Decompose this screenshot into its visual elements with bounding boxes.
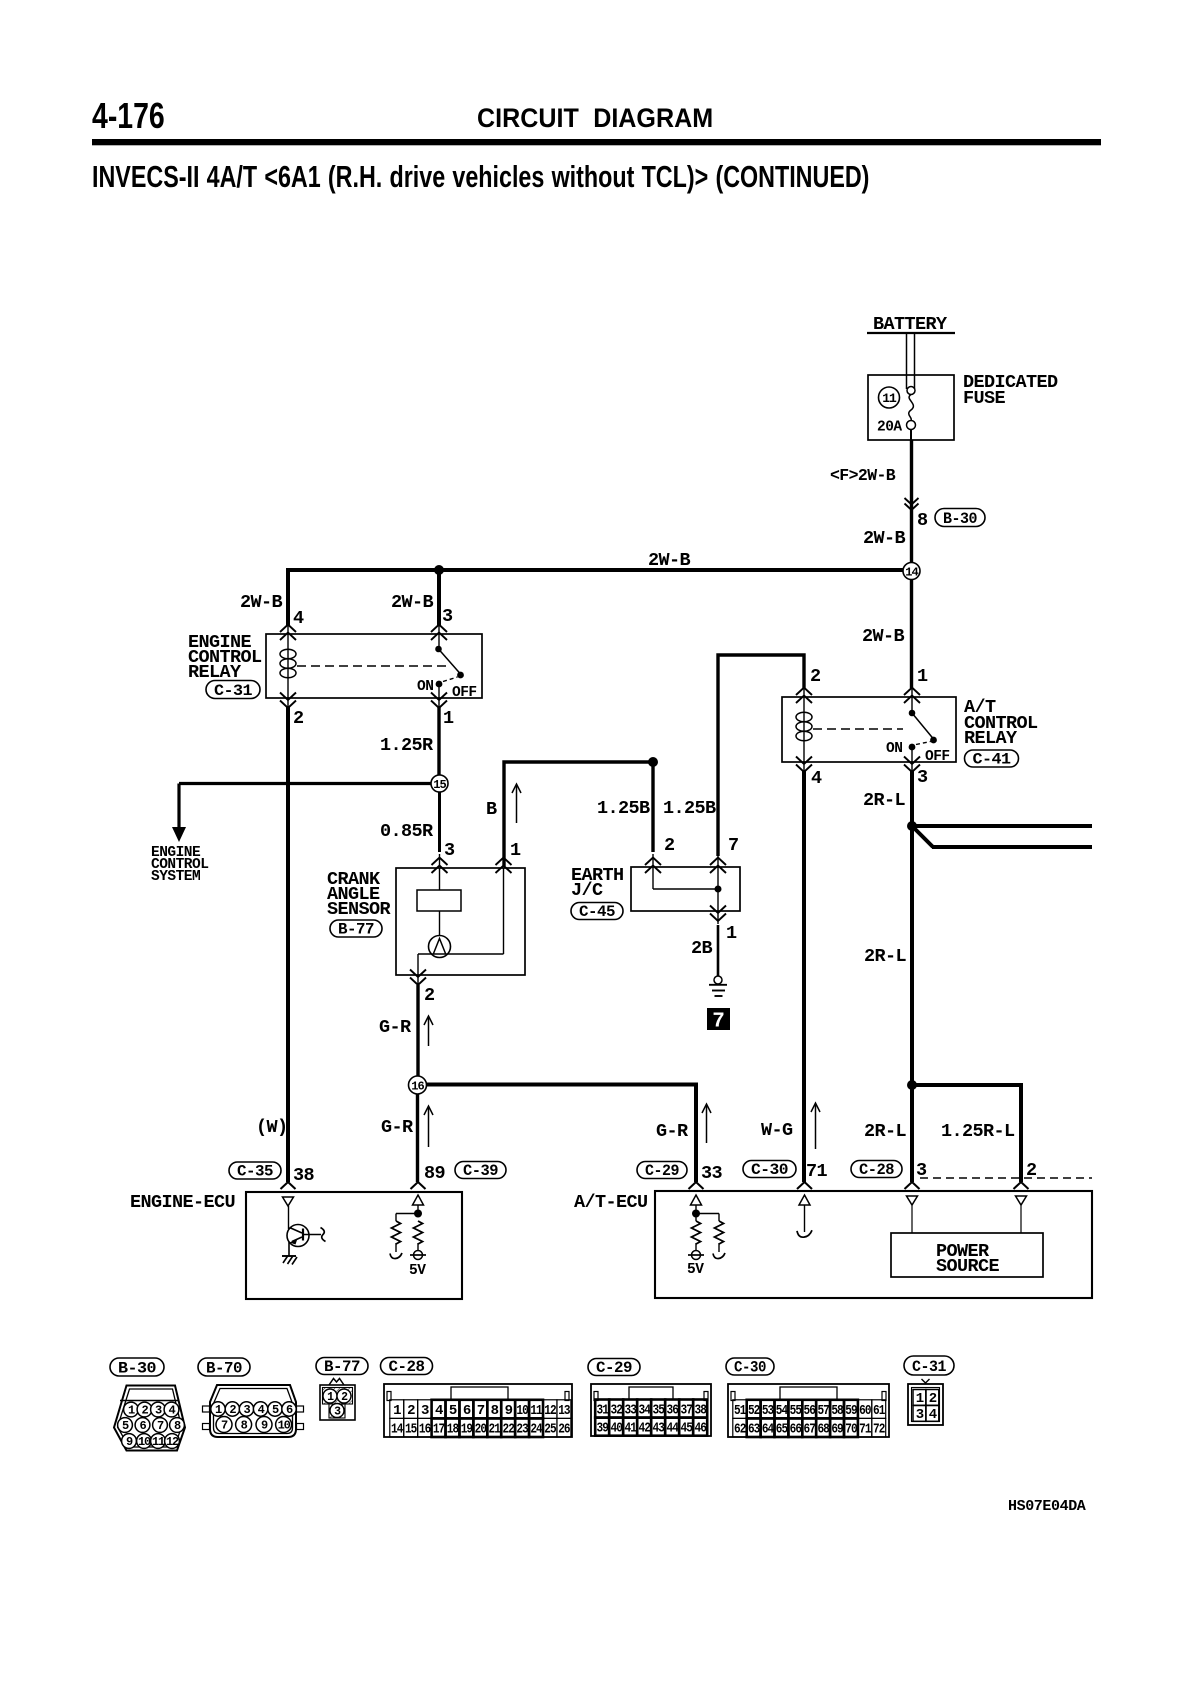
svg-text:14: 14 [905,565,918,579]
svg-text:71: 71 [859,1422,871,1438]
svg-text:51: 51 [734,1403,746,1419]
svg-text:62: 62 [734,1422,746,1438]
svg-text:11: 11 [882,391,897,406]
svg-text:3: 3 [916,1407,924,1423]
svg-text:HS07E04DA: HS07E04DA [1008,1498,1086,1515]
svg-text:2R-L: 2R-L [864,946,907,967]
svg-text:60: 60 [859,1403,871,1419]
svg-text:B-70: B-70 [206,1359,242,1377]
svg-text:C-31: C-31 [214,682,252,700]
svg-text:A/T-ECU: A/T-ECU [574,1192,648,1213]
svg-text:10: 10 [278,1419,291,1433]
svg-text:16: 16 [419,1422,431,1438]
svg-text:B-77: B-77 [338,921,374,939]
svg-text:36: 36 [666,1403,678,1419]
svg-text:67: 67 [804,1422,816,1438]
svg-text:BATTERY: BATTERY [873,314,948,335]
svg-text:58: 58 [831,1403,843,1419]
svg-text:5: 5 [122,1419,129,1433]
svg-text:61: 61 [873,1403,885,1419]
svg-text:4: 4 [293,608,304,629]
svg-text:66: 66 [790,1422,802,1438]
svg-text:RELAY: RELAY [964,728,1018,749]
svg-text:1: 1 [726,923,737,944]
svg-text:23: 23 [516,1422,528,1438]
svg-text:C-28: C-28 [859,1161,894,1179]
svg-text:7: 7 [477,1403,485,1419]
svg-text:4: 4 [435,1403,443,1419]
svg-text:2B: 2B [691,938,713,959]
svg-text:68: 68 [817,1422,829,1438]
svg-text:2: 2 [664,835,675,856]
svg-text:1: 1 [443,708,454,729]
svg-text:B-30: B-30 [118,1359,156,1377]
svg-text:1: 1 [916,1391,924,1407]
svg-text:37: 37 [680,1403,692,1419]
svg-text:1.25B: 1.25B [663,798,716,819]
svg-text:5V: 5V [409,1263,426,1279]
svg-text:(W): (W) [256,1117,288,1138]
svg-text:2: 2 [929,1391,937,1407]
svg-text:9: 9 [505,1403,513,1419]
svg-text:G-R: G-R [379,1017,412,1038]
svg-text:16: 16 [411,1079,424,1093]
svg-text:4: 4 [811,768,822,789]
svg-text:9: 9 [126,1435,133,1449]
svg-text:63: 63 [748,1422,760,1438]
svg-text:18: 18 [447,1422,459,1438]
svg-text:9: 9 [261,1419,268,1433]
svg-text:C-29: C-29 [645,1162,679,1180]
svg-text:C-39: C-39 [463,1162,498,1180]
svg-text:2: 2 [424,985,435,1006]
svg-text:17: 17 [433,1422,445,1438]
svg-text:11: 11 [152,1435,165,1449]
svg-text:15: 15 [405,1422,417,1438]
svg-text:40: 40 [610,1421,622,1437]
svg-text:3: 3 [421,1403,429,1419]
svg-text:3: 3 [917,767,928,788]
svg-text:64: 64 [762,1422,774,1438]
svg-text:24: 24 [530,1422,542,1438]
svg-text:7: 7 [157,1419,164,1433]
svg-text:<F>2W-B: <F>2W-B [830,466,896,485]
svg-text:0.85R: 0.85R [380,821,434,842]
svg-text:59: 59 [845,1403,857,1419]
svg-text:25: 25 [544,1422,556,1438]
svg-text:1: 1 [215,1403,222,1417]
svg-text:26: 26 [558,1422,570,1438]
svg-text:41: 41 [624,1421,636,1437]
svg-text:7: 7 [221,1419,228,1433]
svg-text:13: 13 [558,1403,570,1419]
svg-text:8: 8 [491,1403,499,1419]
svg-text:5V: 5V [687,1262,704,1278]
svg-text:44: 44 [666,1421,678,1437]
svg-text:1.25B: 1.25B [597,798,650,819]
svg-text:2: 2 [229,1403,236,1417]
svg-text:15: 15 [433,778,446,792]
svg-text:SYSTEM: SYSTEM [151,869,200,885]
svg-text:55: 55 [790,1403,802,1419]
svg-text:C-28: C-28 [389,1358,425,1376]
svg-text:SENSOR: SENSOR [327,899,392,920]
svg-text:71: 71 [806,1161,828,1182]
svg-text:5: 5 [449,1403,457,1419]
svg-text:ON: ON [886,741,902,757]
svg-text:3: 3 [442,606,453,627]
svg-text:CIRCUIT DIAGRAM: CIRCUIT DIAGRAM [477,102,713,133]
svg-text:2: 2 [810,666,821,687]
svg-text:7: 7 [728,835,739,856]
svg-text:ENGINE-ECU: ENGINE-ECU [130,1192,235,1213]
svg-text:2W-B: 2W-B [863,528,906,549]
svg-text:21: 21 [489,1422,501,1438]
svg-text:OFF: OFF [452,685,477,701]
svg-text:OFF: OFF [925,749,950,765]
svg-text:70: 70 [845,1422,857,1438]
svg-text:14: 14 [391,1422,403,1438]
svg-text:34: 34 [638,1403,650,1419]
svg-text:5: 5 [272,1403,279,1417]
svg-text:2W-B: 2W-B [391,592,434,613]
svg-text:C-45: C-45 [579,903,615,921]
svg-text:39: 39 [596,1421,608,1437]
svg-text:22: 22 [502,1422,514,1438]
svg-text:4: 4 [168,1404,175,1418]
svg-text:6: 6 [139,1419,146,1433]
svg-text:35: 35 [652,1403,664,1419]
svg-text:65: 65 [776,1422,788,1438]
svg-text:W-G: W-G [761,1120,793,1141]
svg-text:2R-L: 2R-L [863,790,906,811]
svg-text:2R-L: 2R-L [864,1121,907,1142]
svg-text:B-77: B-77 [324,1358,360,1376]
svg-text:C-30: C-30 [751,1161,788,1179]
svg-text:C-41: C-41 [973,751,1011,769]
svg-text:C-35: C-35 [237,1163,273,1181]
svg-text:B-30: B-30 [943,510,977,528]
svg-text:C-29: C-29 [596,1359,632,1377]
svg-text:54: 54 [776,1403,788,1419]
svg-text:72: 72 [873,1422,885,1438]
svg-text:6: 6 [463,1403,471,1419]
svg-text:43: 43 [652,1421,664,1437]
svg-text:89: 89 [424,1163,445,1184]
svg-text:1: 1 [510,840,521,861]
svg-text:4: 4 [929,1407,937,1423]
svg-text:8: 8 [174,1419,181,1433]
svg-text:10: 10 [516,1403,528,1419]
svg-text:2: 2 [293,708,304,729]
svg-text:1.25R: 1.25R [380,735,434,756]
svg-text:20: 20 [475,1422,487,1438]
svg-text:3: 3 [243,1403,250,1417]
svg-text:7: 7 [712,1011,725,1034]
svg-text:32: 32 [610,1403,622,1419]
svg-text:8: 8 [241,1419,248,1433]
svg-text:8: 8 [917,510,928,531]
svg-text:3: 3 [155,1404,162,1418]
svg-text:G-R: G-R [381,1117,414,1138]
svg-text:1: 1 [917,666,928,687]
svg-text:2: 2 [407,1403,415,1419]
svg-text:11: 11 [530,1403,542,1419]
svg-text:J/C: J/C [571,880,603,901]
svg-text:19: 19 [461,1422,473,1438]
svg-text:2W-B: 2W-B [240,592,283,613]
svg-text:B: B [486,799,497,820]
svg-text:2W-B: 2W-B [648,550,691,571]
svg-text:12: 12 [544,1403,556,1419]
svg-text:69: 69 [831,1422,843,1438]
svg-text:10: 10 [138,1435,151,1449]
svg-text:12: 12 [166,1435,179,1449]
svg-text:6: 6 [286,1403,293,1417]
svg-text:3: 3 [444,840,455,861]
svg-text:4: 4 [258,1403,265,1417]
svg-text:4-176: 4-176 [92,96,165,136]
svg-text:20A: 20A [877,420,902,436]
svg-text:INVECS-II 4A/T <6A1 (R.H. driv: INVECS-II 4A/T <6A1 (R.H. drive vehicles… [92,159,869,194]
svg-text:SOURCE: SOURCE [936,1256,1000,1277]
svg-text:53: 53 [762,1403,774,1419]
svg-text:46: 46 [694,1421,706,1437]
svg-text:38: 38 [293,1165,315,1186]
svg-text:57: 57 [817,1403,829,1419]
svg-text:33: 33 [624,1403,636,1419]
svg-text:1.25R-L: 1.25R-L [941,1121,1015,1142]
svg-text:45: 45 [680,1421,692,1437]
svg-text:1: 1 [128,1404,135,1418]
svg-text:38: 38 [694,1403,706,1419]
svg-text:33: 33 [701,1163,723,1184]
svg-text:31: 31 [596,1403,608,1419]
svg-text:52: 52 [748,1403,760,1419]
svg-text:C-30: C-30 [734,1359,766,1377]
svg-text:2W-B: 2W-B [862,626,905,647]
svg-text:1: 1 [393,1403,401,1419]
svg-text:C-31: C-31 [912,1358,946,1376]
svg-text:42: 42 [638,1421,650,1437]
svg-text:56: 56 [804,1403,816,1419]
svg-text:2: 2 [141,1404,148,1418]
svg-text:G-R: G-R [656,1121,689,1142]
svg-text:FUSE: FUSE [963,388,1006,409]
